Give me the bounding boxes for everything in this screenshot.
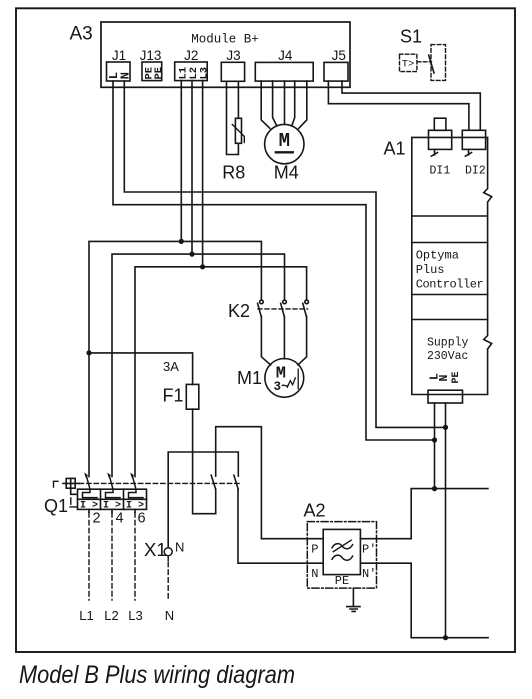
svg-text:Controller: Controller: [416, 278, 484, 292]
terminal DI2: [462, 130, 485, 149]
wire A2 N' output to N rail: [360, 563, 488, 638]
svg-text:DI2: DI2: [465, 164, 486, 177]
svg-text:S1: S1: [400, 26, 422, 46]
wire A2 P' output to L rail: [360, 489, 488, 539]
svg-text:Model B Plus wiring diagram: Model B Plus wiring diagram: [19, 661, 295, 689]
svg-text:N: N: [165, 608, 174, 623]
wire contact1 top to A2 P: [216, 427, 324, 539]
wire J4 pin3 to M4: [284, 81, 286, 124]
svg-text:Module B+: Module B+: [191, 33, 259, 47]
svg-text:L3: L3: [198, 67, 210, 80]
svg-text:J3: J3: [226, 48, 240, 63]
wire A1 N terminal down to N' rail: [445, 403, 447, 638]
wire A1 L terminal down to P' rail: [434, 403, 436, 489]
svg-text:M1: M1: [237, 368, 262, 388]
svg-text:A1: A1: [384, 139, 406, 159]
Q1 thermal element pole2: [106, 489, 121, 497]
svg-text:L3: L3: [128, 608, 142, 623]
svg-text:I: I: [103, 501, 109, 512]
wire Q1 out stubs: [89, 509, 135, 512]
svg-text:X1: X1: [144, 539, 167, 560]
svg-text:2: 2: [92, 510, 100, 526]
aux contact 1 blade: [211, 475, 215, 489]
A2 shield dash-dot box: [307, 522, 376, 589]
connector J13: [142, 62, 162, 81]
cable Q1 pole3 to L3 dashed: [134, 513, 136, 601]
node N to N' rail: [443, 635, 448, 640]
wire J1 N to A1 N terminal: [124, 81, 445, 427]
wire net L1 (J2 to Q1 and K2): [89, 81, 261, 477]
svg-text:PE: PE: [153, 67, 165, 80]
wire K2 pole3 to M1: [298, 317, 307, 365]
Q1 trip unit box: [78, 489, 147, 509]
motor M1: [265, 359, 304, 398]
Q1 thermal element pole1: [83, 489, 98, 497]
svg-text:J13: J13: [140, 48, 162, 63]
terminal DI1: [434, 118, 446, 130]
K2 pole 2 contact: [283, 300, 287, 304]
wire net L2 (J2 to Q1 and K2): [112, 81, 285, 477]
aux contact 2 blade: [234, 475, 238, 489]
svg-text:M: M: [279, 130, 290, 152]
Q1 thermal element pole3: [129, 489, 144, 497]
node L1: [179, 239, 184, 244]
wire N to aux contact 2: [168, 452, 238, 548]
M1 thermal protector: [287, 369, 298, 389]
svg-text:DI1: DI1: [430, 164, 451, 177]
svg-text:F1: F1: [163, 385, 184, 405]
wire L1 tap to fuse F1: [89, 353, 216, 514]
svg-text:P: P: [311, 543, 318, 557]
svg-text:A3: A3: [70, 24, 93, 45]
A2 filter box: [323, 529, 360, 574]
Q1 pole 1 blade: [86, 476, 90, 489]
motor M4: [265, 124, 304, 163]
svg-text:Supply: Supply: [427, 337, 469, 350]
wire J3 loop to thermistor: [227, 81, 239, 154]
connector J1: [107, 62, 131, 81]
connector J5: [324, 62, 348, 81]
svg-text:Plus: Plus: [416, 263, 445, 277]
S1 thermostat dashed box: [400, 54, 417, 71]
node L to P' rail: [432, 486, 437, 491]
node L2: [189, 252, 194, 257]
svg-text:Optyma: Optyma: [416, 248, 459, 262]
K2 pole 1 contact: [260, 300, 264, 304]
svg-text:N: N: [438, 375, 451, 382]
wire J5 pin2 to DI2: [342, 81, 480, 130]
cable X1 to N dashed: [167, 556, 169, 600]
S1 contact dashed outline: [431, 45, 446, 81]
svg-text:T>: T>: [402, 58, 415, 70]
S1 dashed link: [418, 61, 432, 63]
svg-text:4: 4: [115, 510, 123, 526]
svg-text:N': N': [362, 567, 376, 581]
svg-text:230Vac: 230Vac: [427, 350, 469, 363]
Q1 linkage dashed: [79, 482, 239, 484]
thermistor R8: [235, 118, 241, 143]
fuse F1: [186, 384, 199, 409]
svg-text:L1: L1: [79, 608, 93, 623]
wire J1 L to A1 L terminal: [113, 81, 435, 440]
Q1 pole 3 blade: [132, 476, 136, 489]
Q1 pole 2 blade: [109, 476, 113, 489]
wire J4 pin2 to M4: [273, 81, 277, 126]
svg-text:PE: PE: [451, 371, 462, 383]
S1 contact blade: [429, 55, 434, 73]
node L at A1: [432, 437, 437, 442]
wire K2 pole2 to M1: [283, 317, 285, 359]
svg-text:Q1: Q1: [44, 496, 68, 516]
svg-text:N: N: [311, 567, 318, 581]
wire J4 pin4 to M4: [292, 81, 295, 126]
wire K2 pole1 to M1: [261, 317, 270, 365]
svg-text:J5: J5: [332, 48, 346, 63]
svg-text:J1: J1: [112, 48, 126, 63]
A1 divider lines: [412, 216, 488, 320]
K2 linkage dashed: [258, 308, 308, 310]
svg-text:N: N: [118, 72, 132, 79]
K2 pole 3 contact: [305, 300, 309, 304]
Q1 reset hook: [54, 481, 59, 487]
svg-text:I: I: [80, 501, 86, 512]
A2 filter waves: [332, 544, 353, 549]
node N at A1: [443, 425, 448, 430]
svg-text:J4: J4: [278, 48, 293, 63]
wire J4 pin5 to M4: [299, 81, 307, 128]
wire contact2 bottom to A2 N: [238, 489, 323, 563]
connector J4: [255, 62, 313, 81]
connector J2: [175, 62, 208, 81]
svg-text:K2: K2: [228, 301, 250, 321]
svg-text:L2: L2: [104, 608, 118, 623]
svg-text:R8: R8: [222, 163, 245, 183]
node L3: [200, 264, 205, 269]
connector J3: [221, 62, 244, 81]
A1 supply terminal box: [428, 390, 463, 403]
svg-text:6: 6: [137, 510, 145, 526]
controller A1 box (right edge with break zigzags): [412, 137, 492, 394]
wire net L3 (J2 to Q1 and K2): [135, 81, 307, 477]
svg-text:N: N: [175, 540, 184, 555]
svg-text:P': P': [362, 543, 376, 557]
svg-text:3~: 3~: [274, 380, 289, 394]
svg-text:J2: J2: [184, 48, 198, 63]
svg-text:3A: 3A: [163, 359, 179, 374]
svg-text:M4: M4: [274, 163, 299, 183]
ground PE: [347, 588, 360, 611]
svg-text:I: I: [126, 501, 132, 512]
Q1 manual operator: [66, 478, 75, 488]
module A3 box: [101, 22, 350, 87]
cable Q1 pole2 to L2 dashed: [111, 513, 113, 601]
wire J4 pin1 to M4: [261, 81, 270, 128]
svg-text:A2: A2: [304, 501, 326, 521]
node L1 tap: [86, 350, 91, 355]
svg-text:PE: PE: [335, 574, 349, 588]
wire J5 pin1 to DI2: [328, 81, 469, 130]
cable Q1 pole1 to L1 dashed: [88, 513, 90, 601]
